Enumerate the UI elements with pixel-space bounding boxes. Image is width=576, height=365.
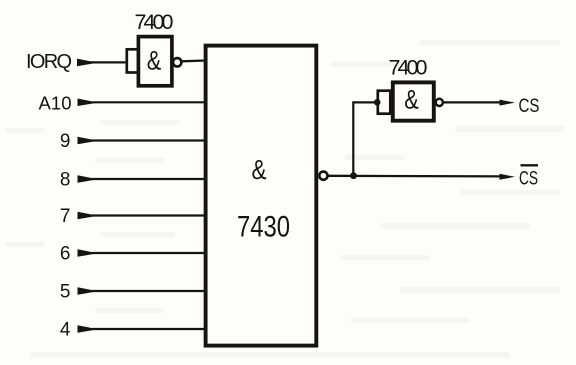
arrow IORQ — [77, 59, 98, 67]
svg-text:5: 5 — [60, 281, 71, 302]
arrow 7 — [78, 212, 99, 220]
svg-text:7430: 7430 — [237, 210, 290, 243]
svg-text:IORQ: IORQ — [26, 51, 72, 73]
gate U3 7400 box — [393, 82, 434, 120]
label /CS overline — [521, 164, 539, 166]
gate U1 7400 box — [138, 37, 172, 86]
arrow 6 — [78, 249, 99, 257]
wire 8 — [92, 178, 206, 180]
arrow 8 — [78, 175, 99, 183]
arrow A10 — [78, 99, 99, 107]
svg-text:7400: 7400 — [389, 56, 428, 80]
wire 7 — [92, 214, 206, 216]
wire IORQ to U1 bracket — [88, 61, 127, 63]
gate U1 output bubble — [173, 58, 181, 66]
wire A10 — [92, 101, 206, 103]
svg-text:8: 8 — [60, 169, 71, 190]
junction node at U3 input — [374, 99, 381, 106]
arrow /CS — [500, 174, 516, 180]
svg-text:A10: A10 — [39, 93, 72, 114]
wire U2 output to /CS arrow — [328, 175, 502, 178]
gate U3 input bracket — [378, 91, 391, 114]
wire 4 — [92, 328, 206, 330]
svg-text:7400: 7400 — [135, 10, 174, 34]
svg-text:4: 4 — [60, 319, 71, 340]
wire U3 output to CS arrow — [443, 101, 502, 103]
wire U1 output to 7430 pin — [182, 59, 206, 62]
svg-text:CS: CS — [519, 95, 540, 117]
U2 output bubble — [319, 172, 327, 180]
gate U1 input bracket — [127, 49, 139, 72]
wire riser to U3 — [353, 102, 377, 175]
svg-text:&: & — [252, 154, 267, 185]
wire 9 — [92, 139, 206, 141]
arrow 9 — [78, 137, 99, 145]
svg-text:6: 6 — [60, 243, 71, 264]
gate U3 output bubble — [436, 99, 443, 106]
arrow 4 — [78, 325, 99, 333]
arrow 5 — [78, 287, 99, 295]
junction node output — [350, 172, 357, 179]
arrow CS — [500, 100, 516, 106]
svg-text:9: 9 — [60, 131, 71, 152]
IC U2 7430 box — [206, 46, 317, 346]
svg-text:7: 7 — [60, 206, 71, 227]
wire 5 — [92, 290, 206, 292]
svg-text:CS: CS — [519, 168, 538, 190]
wire 6 — [92, 252, 206, 254]
svg-text:&: & — [147, 45, 162, 75]
svg-text:&: & — [404, 84, 419, 114]
